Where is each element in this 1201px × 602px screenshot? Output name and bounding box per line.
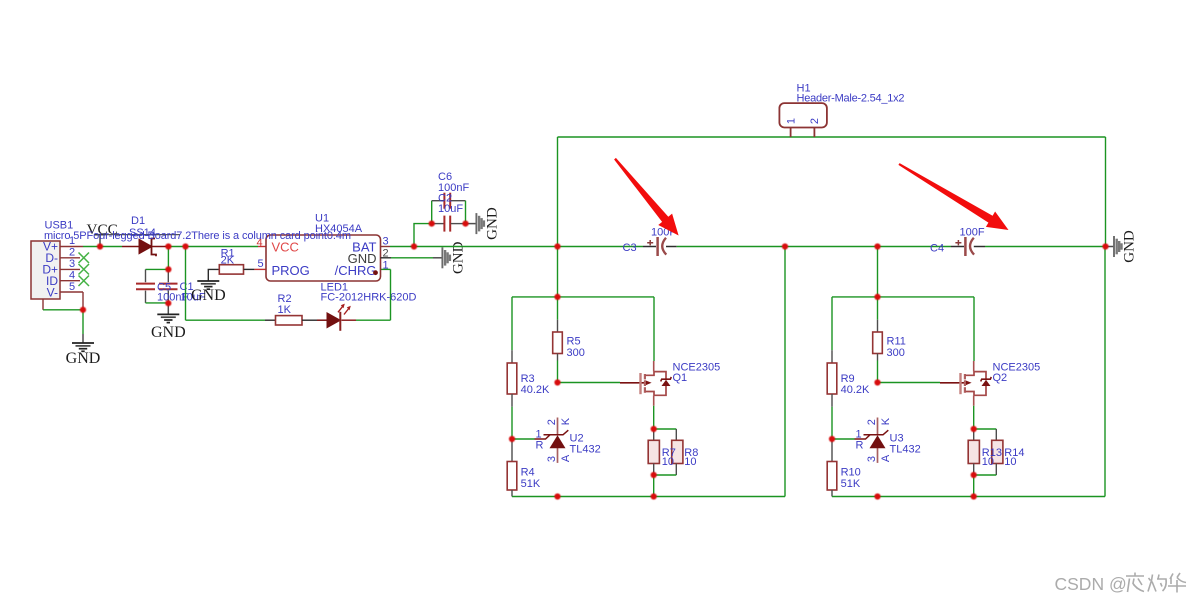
svg-text:A: A bbox=[560, 454, 572, 462]
svg-text:K: K bbox=[880, 417, 892, 425]
svg-text:GND: GND bbox=[484, 207, 500, 240]
svg-text:3: 3 bbox=[383, 236, 389, 248]
svg-text:2: 2 bbox=[809, 118, 821, 124]
led LED1 anode lead bbox=[317, 319, 327, 321]
ground GND usb bbox=[66, 334, 101, 367]
no-connect X pin2 bbox=[79, 253, 90, 264]
capacitor C3 polarized bbox=[643, 237, 677, 256]
wire left branch upper bbox=[831, 297, 833, 350]
ground GND caps (rotated) bbox=[466, 207, 501, 240]
ground GND r1 bbox=[191, 281, 226, 304]
wire right riser to main rail bbox=[1104, 247, 1106, 497]
wire main rail C3 to right1 bbox=[677, 246, 785, 248]
node bat junction bbox=[411, 243, 417, 249]
capacitor C1 bbox=[159, 269, 178, 303]
svg-text:1: 1 bbox=[785, 118, 797, 124]
no-connect X pin3 bbox=[79, 264, 90, 275]
wire cap branch vertical bbox=[167, 247, 169, 270]
wire bottom rail bbox=[832, 496, 1105, 498]
svg-text:3: 3 bbox=[866, 456, 878, 462]
wire led branch vertical bbox=[185, 247, 187, 321]
diode D1 SS14 bbox=[139, 239, 156, 257]
wire pin3 to node bbox=[390, 246, 414, 248]
pin 3 stub bbox=[60, 268, 80, 270]
node bottom rail junction right bbox=[971, 493, 977, 499]
svg-text:V-: V- bbox=[47, 286, 58, 300]
svg-text:GND: GND bbox=[66, 350, 101, 367]
wire main rail center1 to C3 bbox=[558, 246, 644, 248]
capacitor C4 polarized bbox=[951, 237, 985, 256]
svg-text:PROG: PROG bbox=[272, 263, 310, 278]
wire c6 loop top left bbox=[432, 200, 444, 202]
wire left branch mid bbox=[831, 394, 833, 407]
pin 4 stub bbox=[60, 280, 80, 282]
pin labels 2 K rotated bbox=[546, 419, 558, 425]
wire drain from top rail bbox=[973, 297, 975, 361]
wire main rail bat to center1 bbox=[414, 246, 558, 248]
node ref junction bbox=[829, 436, 835, 442]
shunt-ref U2 TL432 bbox=[535, 418, 569, 463]
wire sense to bottom rail bbox=[973, 475, 975, 497]
pin 5 stub bbox=[60, 291, 83, 293]
svg-text:1K: 1K bbox=[278, 304, 292, 316]
resistor R2 lead left bbox=[265, 319, 276, 321]
wire gate horizontal bbox=[558, 382, 621, 384]
diode D1 anode lead bbox=[122, 246, 139, 248]
resistor R5 bbox=[553, 332, 563, 354]
ground GND pin2 (rotated) bbox=[433, 241, 467, 274]
svg-text:TL432: TL432 bbox=[570, 444, 601, 456]
node bottom rail junction right bbox=[651, 493, 657, 499]
svg-text:5: 5 bbox=[258, 258, 264, 270]
transistor Q1 NCE2305 bbox=[641, 361, 672, 406]
node gate junction bbox=[874, 379, 880, 385]
wire c5 loop bottom bbox=[146, 302, 169, 304]
watermark glyph ye bbox=[1126, 573, 1144, 593]
annotation red arrow 1 bbox=[614, 158, 679, 236]
svg-text:51K: 51K bbox=[841, 478, 861, 490]
chip U1 pin4 stub bbox=[258, 246, 266, 248]
header H1 bbox=[779, 103, 827, 137]
wire left branch lower bbox=[511, 439, 513, 462]
svg-text:R10: R10 bbox=[841, 467, 861, 479]
svg-text:C4: C4 bbox=[930, 243, 944, 255]
node center1 main junction bbox=[554, 243, 560, 249]
wire up to chip pin1 bbox=[390, 269, 392, 320]
node top rail junction bbox=[554, 294, 560, 300]
wire main rail right1 to center2 bbox=[785, 246, 878, 248]
resistor R3 bbox=[507, 363, 517, 394]
svg-text:R5: R5 bbox=[567, 336, 581, 348]
svg-text:R4: R4 bbox=[521, 467, 535, 479]
svg-text:Header-Male-2.54_1x2: Header-Male-2.54_1x2 bbox=[797, 93, 905, 105]
wire center branch upper bbox=[877, 297, 879, 320]
svg-text:R: R bbox=[856, 440, 864, 452]
wire led cathode bbox=[342, 319, 357, 321]
wire left branch lower bbox=[831, 439, 833, 462]
diode cathode lead bbox=[152, 246, 168, 248]
svg-text:300: 300 bbox=[567, 347, 585, 359]
resistor R1 lead left bbox=[208, 269, 219, 280]
svg-text:2: 2 bbox=[546, 419, 558, 425]
svg-text:10uF: 10uF bbox=[438, 203, 463, 215]
wire source down bbox=[653, 406, 655, 429]
wire sense to bottom rail bbox=[653, 475, 655, 497]
wire usb pin1 to vcc node bbox=[83, 246, 122, 248]
power flag VCC bbox=[87, 221, 118, 247]
node right2 main junction bbox=[1102, 243, 1108, 249]
svg-text:5: 5 bbox=[69, 281, 75, 293]
wire ref wire bbox=[512, 438, 535, 440]
svg-text:GND: GND bbox=[1122, 230, 1138, 263]
svg-text:R9: R9 bbox=[841, 373, 855, 385]
wire c2 right lead bbox=[451, 223, 466, 225]
wire gate horizontal bbox=[878, 382, 941, 384]
resistor R9 bbox=[827, 363, 837, 394]
ground GND caps bbox=[151, 303, 186, 341]
shunt-ref U3 TL432 bbox=[855, 418, 889, 463]
svg-text:300: 300 bbox=[887, 347, 905, 359]
ground GND right (rotated) bbox=[1106, 230, 1138, 263]
svg-text:3: 3 bbox=[546, 456, 558, 462]
wire c6 loop right bbox=[465, 201, 467, 224]
wire c6 loop top right bbox=[451, 200, 466, 202]
wire left branch mid bbox=[511, 394, 513, 407]
node c2 left junction bbox=[429, 221, 435, 227]
pin labels 2 K rotated bbox=[866, 419, 878, 425]
node sense bottom junction bbox=[651, 472, 657, 478]
svg-text:C3: C3 bbox=[623, 242, 637, 254]
wire right riser to main rail bbox=[784, 247, 786, 497]
wire left branch upper bbox=[511, 297, 513, 350]
node c2 right junction bbox=[462, 221, 468, 227]
resistor R2 bbox=[276, 316, 303, 325]
wire ref wire bbox=[832, 438, 855, 440]
node bottom rail junction left bbox=[554, 493, 560, 499]
svg-text:micro 5PFour-legged Board7.2Th: micro 5PFour-legged Board7.2There is a c… bbox=[44, 230, 351, 242]
chip U1 pin5 stub bbox=[254, 268, 266, 270]
annotation strike line bbox=[105, 234, 180, 236]
svg-text:4: 4 bbox=[69, 270, 75, 282]
annotation red arrow 2 bbox=[898, 163, 1008, 230]
wire drop to block2 top rail bbox=[877, 247, 879, 297]
resistor R4 bbox=[507, 462, 517, 491]
wire bottom rail bbox=[512, 496, 785, 498]
resistor R14 loop bbox=[974, 428, 997, 430]
svg-text:R11: R11 bbox=[887, 336, 906, 348]
svg-text:100F: 100F bbox=[960, 226, 985, 238]
wire shell to junction bbox=[43, 309, 83, 311]
wire pin2 gnd bbox=[381, 257, 434, 259]
node gate junction bbox=[554, 379, 560, 385]
wire c6 loop left bbox=[431, 201, 433, 224]
svg-text:2: 2 bbox=[866, 419, 878, 425]
node bottom rail junction left bbox=[874, 493, 880, 499]
resistor R7 bbox=[653, 429, 655, 440]
node sense bottom junction bbox=[971, 472, 977, 478]
wire c5 loop top bbox=[146, 268, 169, 270]
svg-text:2K: 2K bbox=[221, 255, 235, 267]
node sense top junction bbox=[971, 426, 977, 432]
node c1 bottom junction bbox=[165, 300, 171, 306]
node ref junction bbox=[509, 436, 515, 442]
wire source down bbox=[973, 406, 975, 429]
node right1 main junction bbox=[782, 243, 788, 249]
wire bat node to c6 branch bbox=[414, 224, 432, 247]
wire header top rail bbox=[558, 136, 1106, 138]
node c5 top junction bbox=[165, 266, 171, 272]
svg-text:1: 1 bbox=[383, 260, 389, 272]
svg-text:Q1: Q1 bbox=[673, 372, 688, 384]
wire chip pin1 stub bbox=[381, 268, 391, 270]
wire top rail Q1 block bbox=[512, 296, 654, 298]
capacitor C5 bbox=[136, 269, 155, 303]
USB shell tail bbox=[42, 299, 44, 310]
wire c2 left lead bbox=[432, 223, 444, 225]
resistor R1 lead right bbox=[244, 268, 255, 270]
wire drop to block1 top rail bbox=[557, 247, 559, 297]
op-amp U1 HX4054A chip body bbox=[266, 235, 381, 281]
wire led branch horizontal bbox=[186, 319, 266, 321]
transistor Q2 NCE2305 bbox=[961, 361, 992, 406]
node vcc junction bbox=[97, 243, 103, 249]
wire drain from top rail bbox=[653, 297, 655, 361]
watermark glyph zhuo bbox=[1148, 575, 1166, 592]
wire main rail C4 to right2 bbox=[985, 246, 1106, 248]
node cap-branch junction bbox=[165, 243, 171, 249]
node sense top junction bbox=[651, 426, 657, 432]
svg-text:GND: GND bbox=[191, 287, 226, 304]
connector USB1 bbox=[31, 240, 60, 300]
chip U1 pin3 stub bbox=[381, 246, 391, 248]
pin 1 stub bbox=[60, 246, 83, 248]
resistor R13 bbox=[973, 429, 975, 440]
svg-text:40.2K: 40.2K bbox=[841, 384, 870, 396]
svg-text:TL432: TL432 bbox=[890, 444, 921, 456]
svg-text:51K: 51K bbox=[521, 478, 541, 490]
led LED1 bbox=[327, 304, 351, 331]
svg-text:K: K bbox=[560, 417, 572, 425]
wire top rail Q2 block bbox=[832, 296, 974, 298]
svg-text:10: 10 bbox=[1004, 456, 1016, 468]
svg-text:/CHRG: /CHRG bbox=[335, 263, 377, 278]
resistor R1 bbox=[219, 265, 243, 274]
svg-text:FC-2012HRK-620D: FC-2012HRK-620D bbox=[321, 292, 417, 304]
pin labels 3 A rotated bbox=[546, 456, 558, 462]
node top rail junction bbox=[874, 294, 880, 300]
svg-text:A: A bbox=[880, 454, 892, 462]
pin labels 3 A rotated bbox=[866, 456, 878, 462]
wire header left drop bbox=[557, 137, 559, 247]
resistor R8 loop bbox=[654, 428, 677, 430]
svg-text:10: 10 bbox=[684, 456, 696, 468]
wire to chip pin4 bbox=[186, 246, 259, 248]
svg-text:10: 10 bbox=[662, 456, 674, 468]
svg-text:10: 10 bbox=[982, 456, 994, 468]
wire center branch upper bbox=[557, 297, 559, 320]
wire junction down bbox=[82, 310, 84, 334]
node usb-gnd junction bbox=[80, 307, 86, 313]
svg-text:CSDN @: CSDN @ bbox=[1055, 574, 1127, 594]
capacitor C2 bbox=[444, 216, 450, 232]
resistor R2 lead right bbox=[302, 319, 317, 321]
wire main rail center2 to C4 bbox=[878, 246, 952, 248]
svg-text:2: 2 bbox=[69, 247, 75, 259]
svg-text:GND: GND bbox=[151, 324, 186, 341]
resistor R10 bbox=[827, 462, 837, 491]
node led-branch junction bbox=[182, 243, 188, 249]
svg-text:Q2: Q2 bbox=[993, 372, 1008, 384]
no-connect X pin4 bbox=[79, 276, 90, 287]
wire between junctions bbox=[168, 246, 185, 248]
svg-text:R3: R3 bbox=[521, 373, 535, 385]
svg-text:3: 3 bbox=[69, 258, 75, 270]
svg-text:R: R bbox=[536, 440, 544, 452]
svg-text:D1: D1 bbox=[131, 215, 145, 227]
pin 2 stub bbox=[60, 257, 80, 259]
wire V- down bbox=[82, 292, 84, 310]
svg-text:40.2K: 40.2K bbox=[521, 384, 550, 396]
watermark glyph hua bbox=[1168, 573, 1186, 593]
wire header right drop bbox=[1105, 137, 1107, 247]
capacitor C6 bbox=[444, 193, 450, 209]
resistor R11 bbox=[873, 332, 883, 354]
node center2 main junction bbox=[874, 243, 880, 249]
